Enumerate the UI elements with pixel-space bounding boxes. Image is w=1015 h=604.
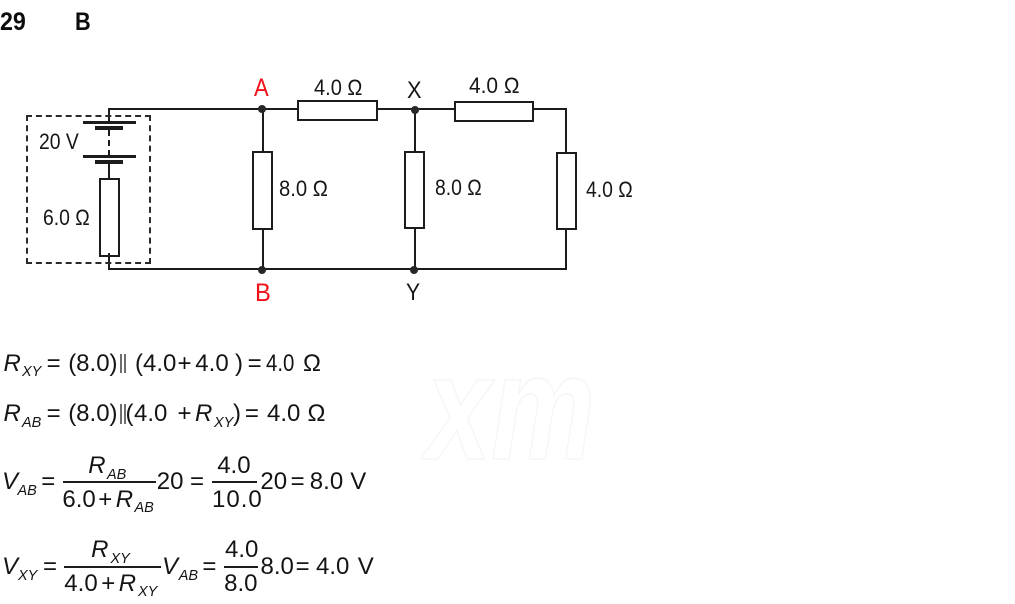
node A dot (258, 105, 266, 113)
parallel bars (120, 404, 122, 424)
battery cell 1 long plate (83, 121, 136, 124)
battery cell 1 short plate (95, 126, 123, 130)
resistor 4.0 ohm A-X (297, 100, 378, 121)
wire: internal resistor to bottom rail (108, 253, 110, 269)
node X label (407, 79, 422, 103)
label 8.0 ohm A-B (279, 178, 328, 200)
fraction Rxy over 4.0+Rxy (64, 566, 161, 568)
fraction 4.0 over 8.0 (224, 566, 259, 568)
label 20 V (39, 131, 79, 153)
wire: branch A-B vertical (262, 108, 264, 270)
battery cell 2 short plate (95, 160, 123, 164)
wire: battery top stub (108, 108, 110, 122)
label 8.0 ohm X-Y (435, 177, 482, 199)
resistor 8.0 ohm A-B (252, 151, 273, 230)
label 4.0 ohm X-corner (469, 75, 519, 97)
wire: top rail (108, 108, 567, 110)
node B label (255, 281, 271, 306)
fraction 4.0 over 10.0 (212, 481, 257, 483)
wire: battery to internal resistor (108, 164, 110, 179)
node X dot (411, 106, 419, 114)
parallel bars (120, 354, 122, 374)
node A label (254, 76, 269, 101)
resistor 4.0 ohm X-corner (454, 101, 534, 122)
watermark xm (426, 332, 595, 482)
fraction Rab over 6.0+Rab (63, 481, 156, 483)
wire: bottom rail (108, 268, 567, 270)
wire: dashed link between cells (108, 130, 110, 156)
resistor 8.0 ohm X-Y (404, 151, 425, 229)
node Y dot (410, 266, 418, 274)
node Y label (406, 281, 420, 305)
battery cell 2 long plate (83, 155, 136, 158)
resistor 6.0 ohm internal (99, 178, 120, 257)
wire: branch X-Y vertical (414, 108, 416, 270)
wire: right branch vertical (565, 108, 567, 270)
label 4.0 ohm A-X (314, 77, 362, 99)
node B dot (258, 266, 266, 274)
resistor 4.0 ohm right (556, 152, 577, 230)
label 6.0 ohm internal (43, 207, 90, 229)
label 4.0 ohm right (586, 179, 633, 201)
question number 29 (0, 10, 25, 35)
dashed battery boundary box (26, 115, 151, 264)
answer letter B (75, 10, 91, 35)
